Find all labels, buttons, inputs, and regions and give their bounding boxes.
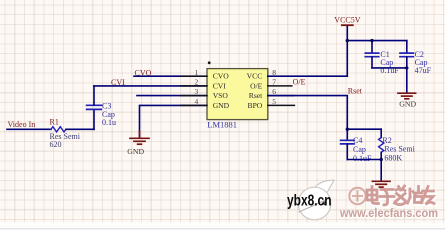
bottom white margin band [0,222,445,230]
svg-text:VCC: VCC [247,72,263,81]
resistor R1 [51,127,66,132]
wire pin 6 Rset to C4/R2 [268,96,348,130]
watermark characters 电子发烧友 (approximated strokes) [368,187,435,206]
junction at R2 bottom [380,158,383,161]
svg-text:CVI: CVI [213,81,227,90]
capacitor C1 [365,53,378,57]
wire C1 bottom lead [371,57,373,68]
svg-text:CVI: CVI [111,78,125,87]
capacitor C2 [400,53,413,57]
pin 6 overlay [268,95,294,97]
svg-text:O/E: O/E [250,81,263,90]
svg-text:VCC5V: VCC5V [334,16,360,25]
resistor R2 [379,138,384,153]
svg-text:CVO: CVO [135,68,152,77]
wire R1 to C3 node [66,128,94,130]
asterisk marker above part [208,61,211,64]
power symbol VCC5V [342,24,353,26]
wire down to ground (bottom right) [380,160,382,181]
svg-text:7: 7 [272,78,276,87]
svg-text:4: 4 [195,97,199,106]
pin 5 stub BPO [268,104,295,106]
wire Video In to R1 [7,128,51,130]
svg-text:O/E: O/E [293,78,306,87]
wire R2 bottom lead [380,152,382,159]
wire tee to R2 top [347,128,381,130]
wire C1/C2 bottom connector [372,67,407,69]
svg-text:R1: R1 [50,117,59,126]
svg-text:C4: C4 [353,136,362,145]
ground symbol (top right) [398,93,416,99]
capacitor C4 [341,140,354,144]
svg-text:Cap: Cap [353,145,366,154]
watermark elecfans round logo [349,188,365,204]
pin 8 overlay [268,75,294,77]
junction at Rset/C4 tee [346,128,349,131]
svg-text:CVO: CVO [213,72,230,81]
svg-text:ybx8.cn: ybx8.cn [287,192,332,209]
wire C1 top lead [371,41,373,53]
svg-text:GND: GND [127,147,144,156]
svg-text:LM1881: LM1881 [207,119,237,129]
ground symbol (bottom right) [372,181,390,187]
svg-text:0.1u: 0.1u [102,118,116,127]
IC U1 LM1881 body [207,69,268,120]
wire VSO stub pin 3 [137,95,207,97]
pin 7 stub O/E [268,85,292,87]
junction at C2 bottom [405,66,408,69]
capacitor C3 [87,105,102,109]
pin 1 overlay [181,75,207,77]
wire C4 bottom lead [346,144,348,159]
wire GND pin 4 [140,105,208,137]
watermark mouse logo (ybx8.cn) [298,180,334,220]
wire down to ground (top right) [406,68,408,93]
junction at C1 top [370,39,373,42]
pin 3 overlay [181,95,207,97]
svg-text:Rset: Rset [249,91,263,100]
svg-text:3: 3 [195,87,199,96]
svg-text:620: 620 [50,140,62,149]
svg-text:47uF: 47uF [415,66,432,75]
svg-text:680K: 680K [384,154,402,163]
svg-text:GND: GND [399,100,416,109]
junction at VCC drop [346,39,349,42]
wire R2 top lead [380,129,382,137]
svg-text:5: 5 [272,97,276,106]
svg-text:Rset: Rset [348,86,363,95]
svg-text:Video In: Video In [8,120,36,129]
svg-text:1: 1 [195,68,199,77]
wire C3 up to CVI line [93,86,95,105]
wire C2 top lead [406,41,408,53]
wire pin 8 to VCC rail [268,26,348,76]
pin 2 overlay [181,85,207,87]
ground symbol (left, pin 4) [130,132,149,145]
wire CVI net to pin 2 [94,85,207,87]
wire C2 bottom lead [406,57,408,68]
svg-text:GND: GND [213,101,230,110]
wire C4 top lead [346,129,348,140]
svg-text:2: 2 [195,78,199,87]
wire VCC rail [347,40,407,42]
svg-text:Res Semi: Res Semi [384,144,415,153]
svg-text:VSO: VSO [213,91,229,100]
svg-text:www.elecfans.com: www.elecfans.com [339,206,438,220]
wire CVO stub pin 1 [134,75,207,77]
svg-text:BPO: BPO [248,101,263,110]
wire vertical R1 node up to C3 [93,110,95,129]
wire C4/R2 bottom connector [347,159,381,161]
pin 4 overlay [181,104,207,106]
